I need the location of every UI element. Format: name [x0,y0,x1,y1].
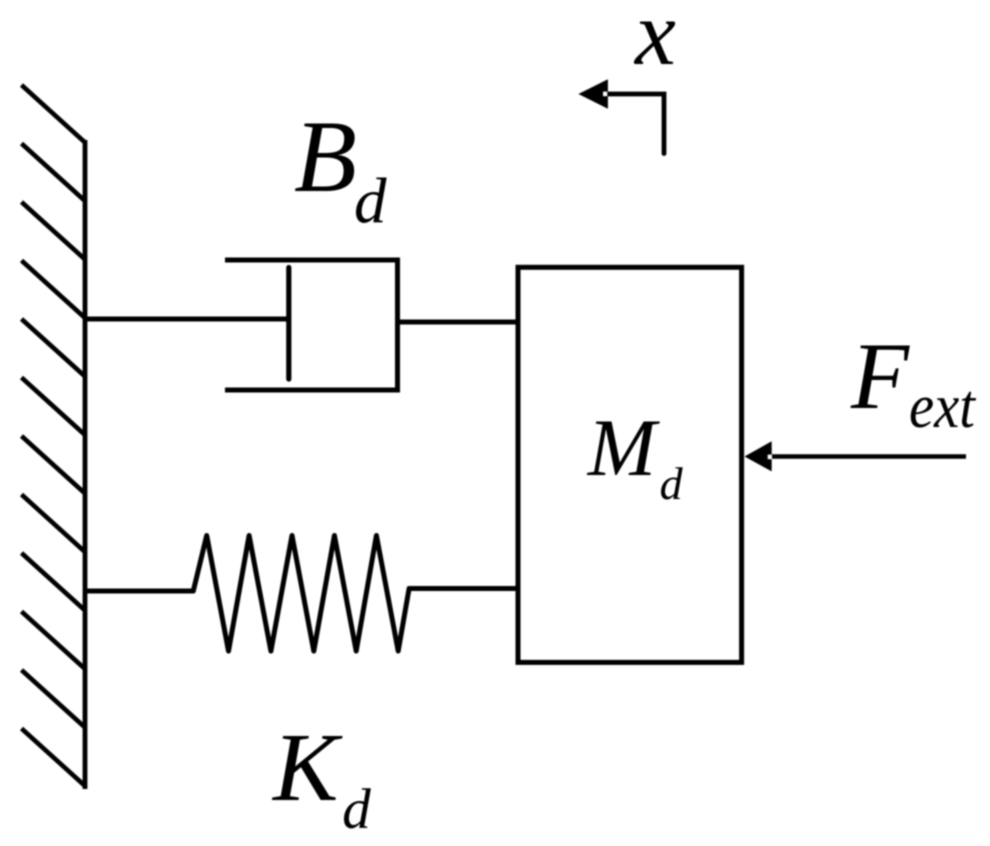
svg-text:F: F [850,323,910,429]
wall hatching [22,85,85,786]
x axis arrowhead [578,79,608,109]
F_ext arrowhead [745,441,772,471]
svg-text:K: K [271,714,343,822]
svg-text:M: M [587,402,661,493]
damper cylinder [225,260,398,390]
wall vertical line [83,140,88,789]
svg-text:d: d [660,458,684,509]
F_ext arrow white notch [768,455,772,460]
F_ext arrow shaft [769,454,966,459]
x axis arrow [606,94,664,154]
svg-text:d: d [342,778,371,841]
x axis white notch [603,92,607,97]
damper rod right (cylinder to mass) [398,320,519,325]
svg-text:x: x [633,0,676,84]
spring with rods (wall to mass) [85,536,519,652]
svg-text:d: d [354,166,387,238]
damper piston [286,268,291,380]
mass block M_d [518,267,742,662]
damper rod left (wall to piston) [85,317,292,322]
svg-text:ext: ext [909,373,977,441]
svg-text:B: B [294,100,357,214]
